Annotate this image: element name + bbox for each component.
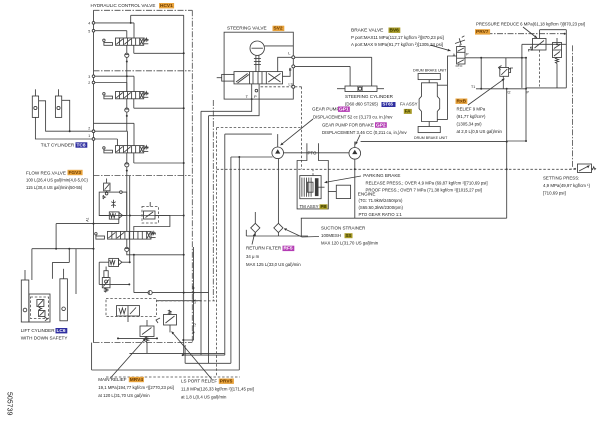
- svg-text:at 1,8 L(0,4 US gal)/min: at 1,8 L(0,4 US gal)/min: [181, 395, 227, 400]
- svg-text:5: 5: [88, 29, 90, 33]
- svg-text:4: 4: [88, 22, 90, 26]
- svg-text:A port:MAX 9 MPa(91,77 kgf/cm: A port:MAX 9 MPa(91,77 kgf/cm ²)[1305,34…: [351, 42, 443, 47]
- svg-text:P port:MAX11 MPa(112,17 kgf/cm: P port:MAX11 MPa(112,17 kgf/cm ²)[870,23…: [351, 35, 444, 40]
- svg-text:(D60 d60 ST265): (D60 d60 ST265): [345, 102, 379, 107]
- svg-text:MRV4: MRV4: [130, 377, 144, 383]
- svg-text:MAX 120 L(31,70 US gal)/min: MAX 120 L(31,70 US gal)/min: [321, 240, 379, 245]
- svg-text:FGV3: FGV3: [69, 170, 82, 176]
- svg-text:A1: A1: [86, 217, 90, 221]
- svg-text:HCV1: HCV1: [160, 3, 173, 9]
- svg-text:115 L(30,4 US gal)/min(50-55): 115 L(30,4 US gal)/min(50-55): [26, 185, 83, 190]
- svg-text:at 120 L(31,70 US gal)/min: at 120 L(31,70 US gal)/min: [98, 393, 150, 398]
- svg-text:34 μ m: 34 μ m: [246, 254, 260, 259]
- svg-text:FA ASSY: FA ASSY: [400, 102, 418, 107]
- svg-text:3: 3: [88, 75, 90, 79]
- svg-text:P: P: [254, 94, 257, 99]
- svg-text:MAX 125 L(33,0 US gal)/min: MAX 125 L(33,0 US gal)/min: [246, 262, 301, 267]
- svg-text:STEERING VALVE: STEERING VALVE: [227, 26, 267, 31]
- svg-text:PRESSURE REDUCE 6 MPa(61,18 k: PRESSURE REDUCE 6 MPa(61,18 kgf/cm ²)[87…: [476, 22, 585, 27]
- svg-text:19,1 MPa(194,77 kgf/cm ²)[2770: 19,1 MPa(194,77 kgf/cm ²)[2770,23 psi]: [98, 385, 173, 390]
- svg-text:PARKING BRAKE: PARKING BRAKE: [363, 173, 400, 178]
- svg-text:FA: FA: [405, 109, 411, 114]
- svg-text:WITH DOWN SAFETY: WITH DOWN SAFETY: [21, 336, 68, 341]
- svg-text:[710,69 psi]: [710,69 psi]: [543, 190, 566, 195]
- svg-text:DRUM BRAKE UNIT: DRUM BRAKE UNIT: [413, 68, 447, 72]
- svg-text:PB: PB: [321, 204, 327, 209]
- svg-text:BRAKE VALVE: BRAKE VALVE: [351, 28, 383, 34]
- svg-text:2: 2: [88, 81, 90, 85]
- svg-text:ENGINE: ENGINE: [358, 192, 376, 197]
- svg-text:RELEASE PRESS.; OVER 4,9 MPa (: RELEASE PRESS.; OVER 4,9 MPa (69,87 kgf/…: [366, 180, 488, 185]
- svg-text:at 2,0 L(0,5 US gal)/min: at 2,0 L(0,5 US gal)/min: [457, 129, 503, 134]
- svg-text:GEAR PUMP FOR BRAKE: GEAR PUMP FOR BRAKE: [322, 122, 374, 127]
- svg-text:PRV7: PRV7: [476, 29, 489, 35]
- svg-text:RELIEF 9 MPa: RELIEF 9 MPa: [457, 107, 486, 112]
- svg-text:PTO GEAR RATIO 1:1: PTO GEAR RATIO 1:1: [359, 212, 403, 217]
- svg-text:4,9 MPa(49,97 kgf/cm ¹): 4,9 MPa(49,97 kgf/cm ¹): [543, 183, 591, 188]
- svg-text:11,8 MPa(126,33 kgf/cm ²)[171,: 11,8 MPa(126,33 kgf/cm ²)[171,45 psi]: [181, 387, 254, 392]
- svg-text:DISPLACEMENT 3,46 CC (0,211 cu: DISPLACEMENT 3,46 CC (0,211 cu, in,)/rev: [322, 130, 407, 135]
- svg-text:BV6: BV6: [390, 28, 400, 34]
- svg-text:PRV5: PRV5: [220, 379, 233, 385]
- svg-text:100MESH: 100MESH: [321, 233, 341, 238]
- svg-text:DRUM BRAKE UNIT: DRUM BRAKE UNIT: [414, 136, 448, 140]
- svg-text:TILT CYLINDER: TILT CYLINDER: [41, 142, 75, 147]
- svg-text:LC6: LC6: [57, 328, 66, 334]
- svg-text:T1: T1: [471, 85, 475, 89]
- svg-text:A: A: [453, 53, 456, 57]
- svg-text:PTO: PTO: [308, 151, 318, 156]
- svg-text:SV2: SV2: [274, 26, 283, 32]
- svg-text:MAIN RELIEF: MAIN RELIEF: [98, 377, 127, 382]
- svg-text:(1305,34 psi): (1305,34 psi): [457, 122, 483, 127]
- svg-text:TC8: TC8: [77, 142, 86, 148]
- svg-text:SETTING PRESS:: SETTING PRESS:: [543, 175, 579, 180]
- svg-text:LS PORT RELIEF: LS PORT RELIEF: [181, 379, 217, 384]
- svg-text:HYDRAULIC CONTROL VALVE: HYDRAULIC CONTROL VALVE: [91, 3, 156, 8]
- svg-text:SUCTION STRAINER: SUCTION STRAINER: [321, 225, 366, 230]
- svg-text:R: R: [289, 67, 292, 72]
- svg-text:(S65:60,3kW/2300rpm): (S65:60,3kW/2300rpm): [359, 205, 404, 210]
- svg-text:1: 1: [88, 134, 90, 138]
- svg-text:505739: 505739: [6, 392, 13, 415]
- svg-text:RF5: RF5: [284, 246, 293, 252]
- svg-text:T2: T2: [193, 323, 197, 327]
- svg-text:100 L(26,4 US gal)/min(4,0-5,0: 100 L(26,4 US gal)/min(4,0-5,0C): [26, 178, 89, 183]
- svg-text:GP2: GP2: [376, 122, 386, 128]
- svg-text:ST65: ST65: [383, 102, 394, 107]
- svg-text:RxB: RxB: [457, 99, 467, 105]
- svg-text:(TG: 71.9kW/2450rpm): (TG: 71.9kW/2450rpm): [359, 198, 404, 203]
- svg-text:GEAR PUMP: GEAR PUMP: [312, 107, 340, 112]
- svg-text:t2: t2: [508, 91, 511, 95]
- svg-text:DISPLACEMENT 52 cc (3,173 cu.: DISPLACEMENT 52 cc (3,173 cu. in.)/rev: [313, 114, 393, 119]
- svg-text:GP1: GP1: [339, 107, 349, 113]
- svg-text:SS: SS: [346, 233, 352, 238]
- svg-text:FLOW REG.VALVE: FLOW REG.VALVE: [26, 170, 66, 175]
- svg-text:PROOF PRESS.; OVER 7 MPa (71,3: PROOF PRESS.; OVER 7 MPa (71,38 kgf/cm ²…: [366, 187, 482, 192]
- svg-text:LIFT CYLINDER: LIFT CYLINDER: [21, 328, 56, 333]
- svg-text:(91,77 kgf/cm²): (91,77 kgf/cm²): [457, 114, 486, 119]
- svg-text:STEERING CYLINDER: STEERING CYLINDER: [345, 94, 394, 99]
- svg-text:2: 2: [88, 127, 90, 131]
- svg-text:TM ASSY: TM ASSY: [300, 204, 319, 209]
- svg-text:RETURN FILTER: RETURN FILTER: [246, 246, 282, 251]
